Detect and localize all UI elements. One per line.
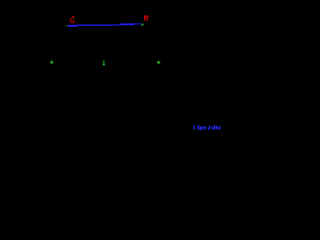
svg-text:X: X: [193, 126, 196, 132]
svg-text:div: div: [211, 126, 221, 132]
svg-text:5µm: 5µm: [197, 126, 206, 132]
